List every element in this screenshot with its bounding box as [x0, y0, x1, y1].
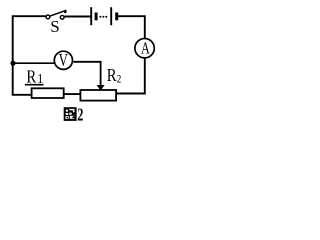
svg-text:S: S: [50, 17, 59, 36]
switch S: [46, 10, 67, 19]
ammeter A: [135, 39, 154, 58]
wire bottom-left (corner to R1): [12, 94, 32, 96]
slider arrow of R2: [97, 85, 105, 91]
wire top-left segment (corner to switch): [13, 16, 46, 95]
svg-text:R: R: [107, 65, 117, 86]
wire voltmeter left lead: [13, 62, 55, 64]
wire between R1 and R2: [64, 93, 81, 95]
resistor R1: [32, 88, 64, 98]
resistor R2: [80, 90, 116, 101]
label R1: [26, 66, 43, 87]
wire voltmeter right lead to slider: [73, 62, 100, 86]
svg-text:A: A: [141, 40, 150, 58]
svg-text:2: 2: [117, 73, 122, 86]
node junction of voltmeter lead on left wire: [10, 61, 15, 66]
battery (two cells with dots): [91, 7, 117, 25]
underline below R1 label: [25, 84, 44, 86]
label R2: [107, 65, 122, 86]
voltmeter V: [54, 51, 72, 70]
wire ammeter to bottom-right corner to R2: [116, 58, 145, 94]
svg-text:2: 2: [77, 105, 83, 124]
svg-text:V: V: [59, 51, 68, 70]
wire battery to top-right corner down to ammeter: [118, 16, 145, 38]
wire switch to battery: [64, 16, 90, 18]
caption 图2 (figure 2): [64, 105, 84, 125]
label S: [50, 17, 59, 36]
